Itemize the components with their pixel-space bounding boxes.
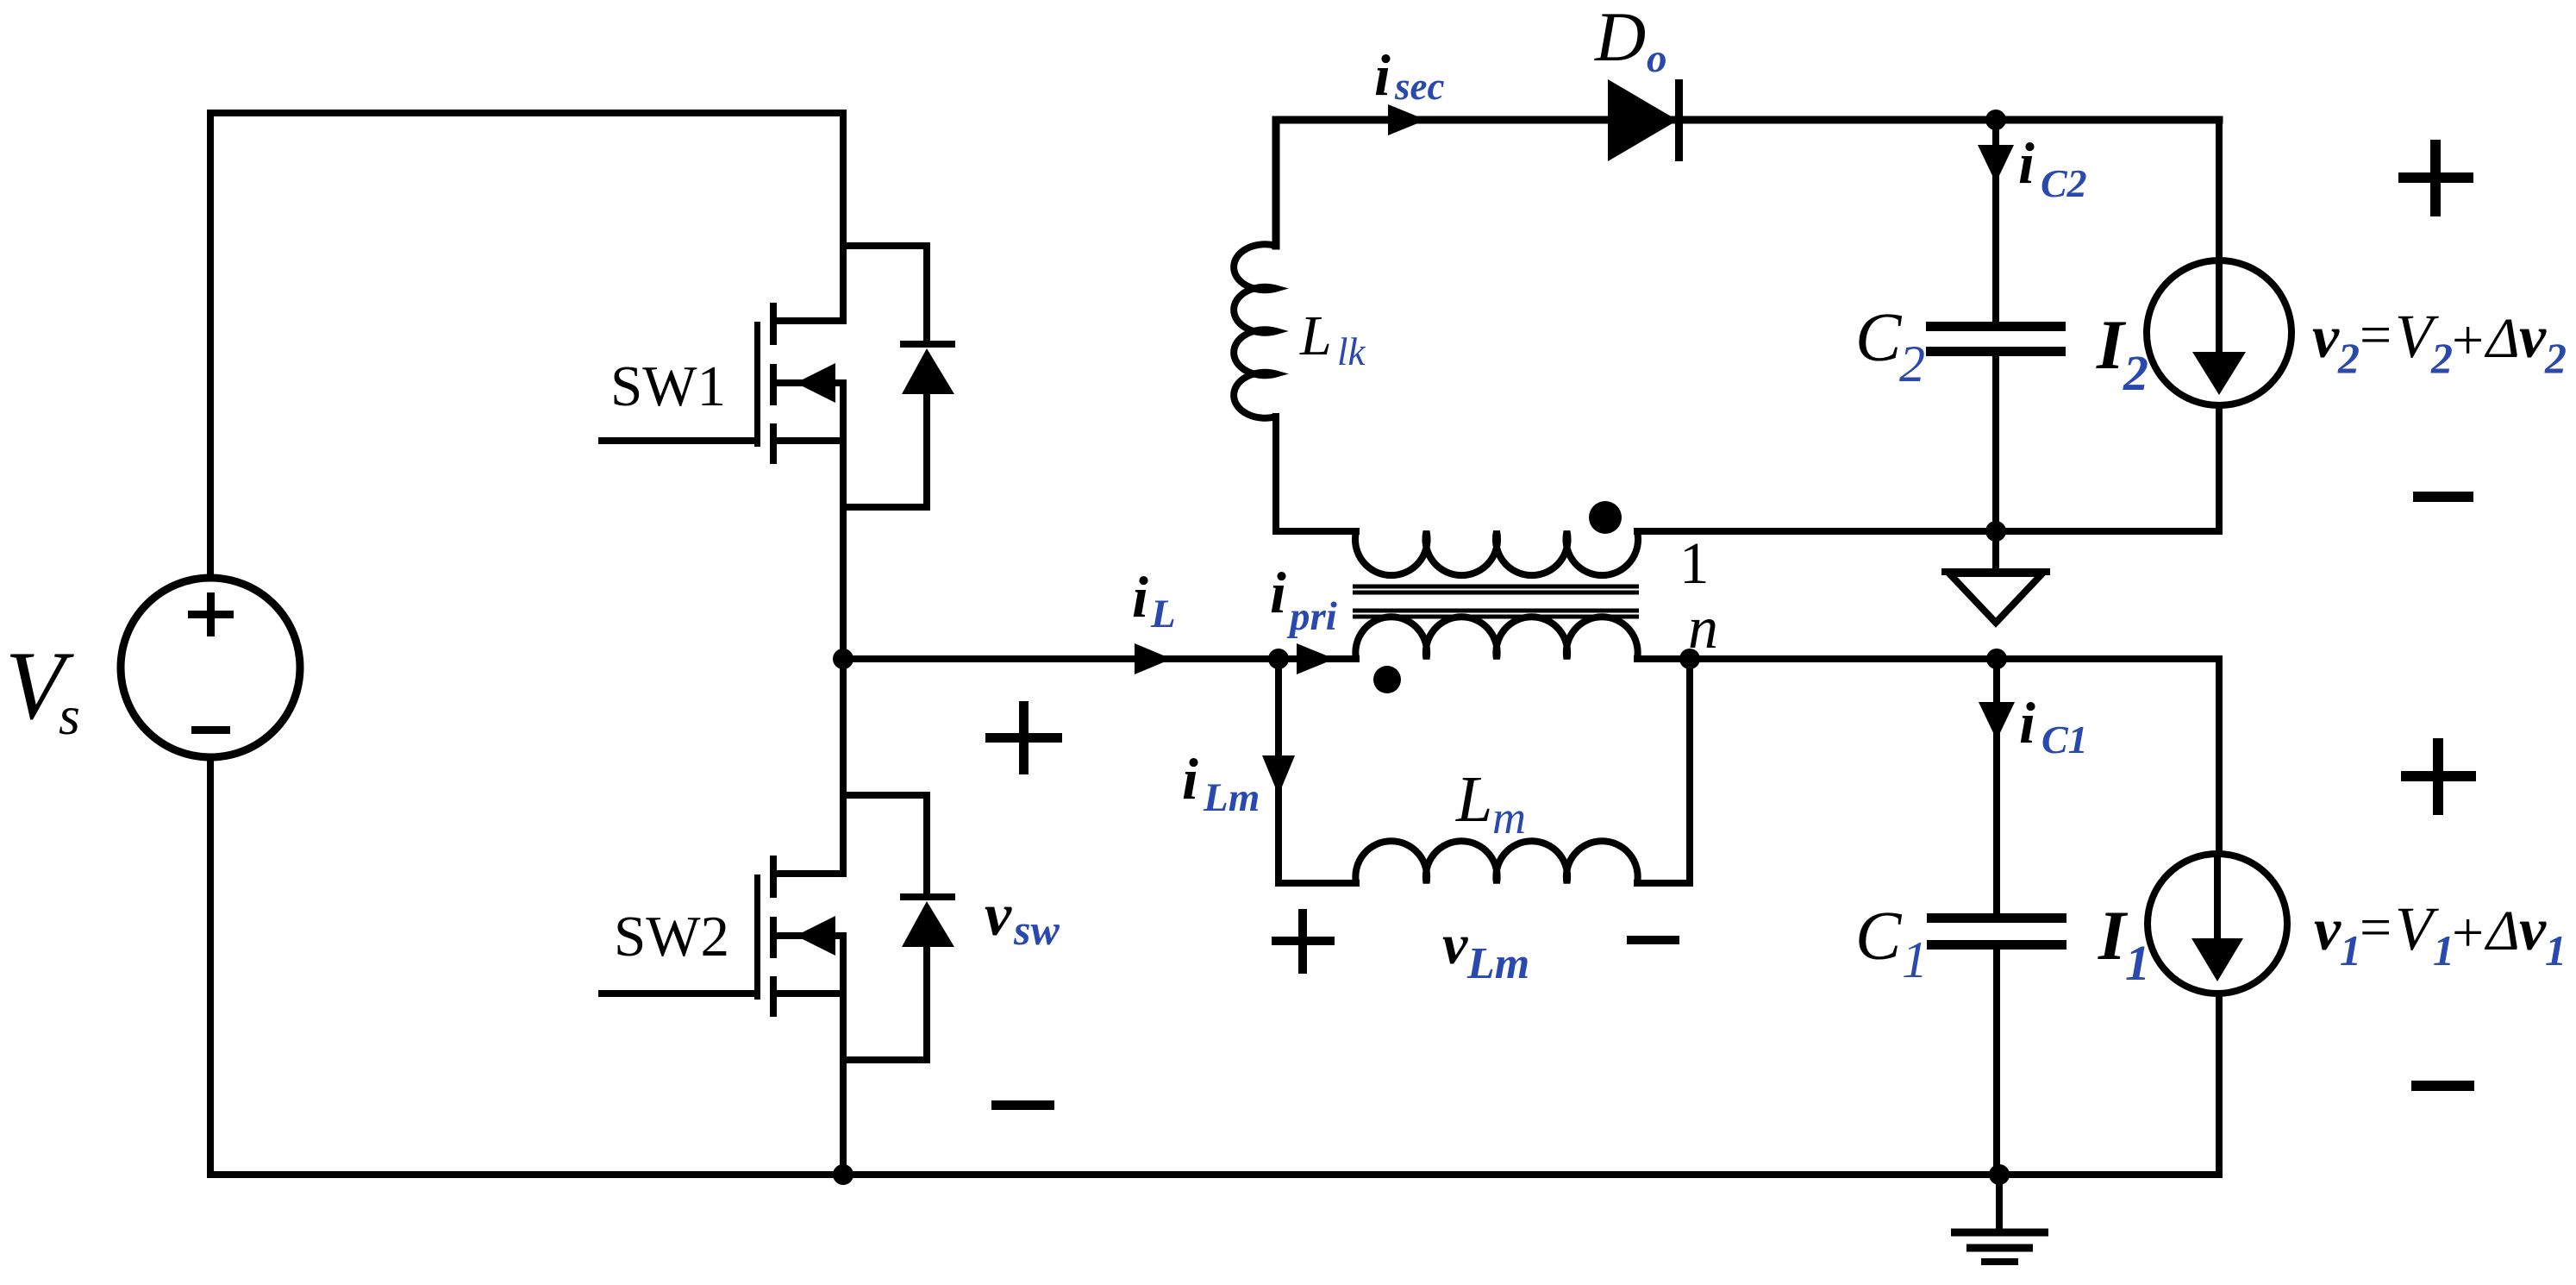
label v_Lm minus	[1627, 936, 1679, 944]
svg-text:+: +	[2452, 309, 2484, 372]
arrow i_sec	[1388, 104, 1426, 135]
transistor SW1	[602, 303, 843, 659]
svg-text:i: i	[1270, 560, 1286, 625]
current source I2	[2147, 120, 2292, 529]
svg-text:2: 2	[1899, 335, 1925, 392]
svg-text:I: I	[2096, 305, 2127, 384]
label i_C2	[2018, 130, 2087, 205]
svg-text:v: v	[2519, 304, 2547, 371]
svg-text:o: o	[1647, 36, 1667, 81]
svg-text:i: i	[2019, 690, 2035, 755]
secondary dot	[1589, 501, 1622, 534]
node mid junction C2	[1985, 521, 2006, 542]
arrow i_C1	[1979, 702, 2015, 740]
svg-text:sw: sw	[1013, 906, 1060, 954]
svg-text:+: +	[2452, 901, 2484, 964]
capacitor C1 branch wire lower	[1993, 950, 2000, 1175]
label v_Lm	[1442, 913, 1529, 988]
svg-text:2: 2	[2337, 334, 2360, 382]
wire i_L	[843, 655, 1356, 662]
wire SW1 drain branch	[777, 113, 843, 321]
svg-text:L: L	[1455, 763, 1492, 836]
wire top-left rail	[210, 110, 843, 116]
transformer core	[1353, 586, 1639, 617]
svg-text:1: 1	[1902, 931, 1928, 988]
wire Llk to secondary winding	[1276, 417, 1356, 531]
wire Lm right side	[1637, 659, 1690, 883]
label v_Lm plus	[1272, 909, 1335, 974]
arrow i_Lm	[1262, 755, 1295, 795]
label v_sw minus	[991, 1100, 1054, 1110]
svg-text:i: i	[1132, 564, 1148, 630]
node n junction	[1679, 649, 1700, 669]
svg-text:v: v	[2312, 304, 2340, 371]
transistor SW2	[602, 659, 843, 1175]
svg-text:v: v	[1442, 913, 1468, 976]
voltage source Vs	[121, 578, 300, 757]
svg-text:v: v	[2314, 897, 2342, 963]
label v2 equation	[2312, 302, 2567, 382]
svg-text:L: L	[1150, 592, 1176, 636]
svg-text:v: v	[2519, 897, 2547, 963]
svg-text:s: s	[59, 685, 80, 746]
wire n rail	[1690, 655, 2219, 662]
capacitor C2	[1926, 322, 2066, 356]
label Lm	[1455, 763, 1526, 843]
label i_pri	[1270, 560, 1337, 639]
svg-text:Lm: Lm	[1466, 939, 1529, 988]
primary dot	[1373, 666, 1401, 693]
label i_L	[1132, 564, 1176, 636]
svg-text:1: 1	[1679, 530, 1710, 596]
svg-text:2: 2	[2430, 334, 2453, 382]
svg-text:Lm: Lm	[1203, 775, 1260, 820]
transformer primary winding	[1355, 617, 1637, 659]
label v1 equation	[2314, 894, 2567, 975]
label i_sec	[1374, 42, 1444, 108]
label i_Lm	[1182, 746, 1260, 820]
node SW midpoint junction	[833, 649, 853, 669]
node i_pri junction	[1268, 649, 1289, 669]
svg-text:v: v	[985, 882, 1012, 949]
current source I1	[2148, 659, 2287, 1175]
svg-text:i: i	[1374, 42, 1391, 108]
diode Do	[1608, 79, 1683, 161]
svg-text:C2: C2	[2041, 161, 2087, 205]
capacitor C2 branch wire lower	[1992, 356, 1999, 531]
capacitor C2 branch wire upper	[1992, 120, 1999, 323]
label i_C1	[2019, 690, 2088, 762]
svg-text:D: D	[1594, 0, 1646, 76]
svg-text:SW1: SW1	[610, 354, 726, 418]
svg-text:=: =	[2360, 304, 2392, 367]
svg-text:2: 2	[2544, 334, 2567, 382]
label I2	[2096, 305, 2148, 401]
svg-text:m: m	[1492, 792, 1526, 843]
ground mid (open triangle)	[1941, 531, 2050, 623]
svg-text:pri: pri	[1286, 594, 1337, 639]
svg-text:1: 1	[2340, 926, 2361, 975]
wire bottom rail	[210, 1171, 2217, 1178]
arrow i_L	[1135, 643, 1172, 674]
wire mid rail	[1637, 528, 2219, 535]
label v1 plus	[2401, 738, 2476, 815]
wire left rail upper	[207, 113, 214, 578]
label v_sw plus	[985, 701, 1062, 774]
capacitor C1	[1927, 913, 2066, 950]
label I1	[2098, 896, 2150, 991]
arrow i_C2	[1978, 145, 2014, 183]
label v2 minus	[2413, 492, 2473, 502]
diode SW1 body diode	[843, 246, 955, 507]
capacitor C1 branch wire upper	[1993, 659, 2000, 914]
wire left rail lower	[207, 757, 214, 1175]
label Llk	[1299, 304, 1366, 373]
svg-text:Δ: Δ	[2484, 899, 2520, 962]
svg-text:sec: sec	[1394, 65, 1444, 108]
transformer secondary winding	[1355, 531, 1638, 575]
svg-text:i: i	[1182, 746, 1198, 812]
svg-text:SW2: SW2	[614, 905, 729, 968]
svg-text:C: C	[1855, 899, 1903, 975]
arrow i_pri	[1297, 643, 1335, 674]
node bottom-right junction	[1989, 1164, 2010, 1185]
wire i_Lm branch	[1279, 659, 1356, 883]
svg-text:I: I	[2098, 896, 2129, 975]
label v_sw	[985, 882, 1060, 954]
svg-text:=: =	[2360, 896, 2392, 959]
svg-text:2: 2	[2123, 345, 2148, 401]
svg-text:1: 1	[2125, 935, 2150, 991]
svg-text:i: i	[2018, 130, 2035, 196]
label Do	[1594, 0, 1667, 81]
label C2	[1855, 300, 1925, 392]
label v2 plus	[2398, 140, 2473, 216]
svg-text:L: L	[1299, 304, 1332, 367]
svg-text:Δ: Δ	[2484, 307, 2520, 370]
svg-text:C: C	[1855, 300, 1903, 376]
wire primary to node n	[1637, 655, 1690, 662]
node top junction C2	[1985, 110, 2006, 130]
inductor Lm	[1355, 841, 1637, 883]
svg-text:C1: C1	[2041, 718, 2088, 762]
node bottom-left junction	[833, 1164, 853, 1185]
diode SW2 body diode	[843, 795, 955, 1060]
label v1 minus	[2411, 1081, 2474, 1091]
svg-text:lk: lk	[1337, 330, 1366, 373]
node n-rail junction C1	[1986, 649, 2007, 669]
label C1	[1855, 899, 1928, 988]
wire secondary top rail	[1276, 120, 2219, 246]
label Vs	[5, 632, 80, 746]
inductor Llk	[1234, 244, 1276, 418]
svg-text:1: 1	[2545, 926, 2567, 975]
ground earth	[1951, 1175, 2048, 1262]
